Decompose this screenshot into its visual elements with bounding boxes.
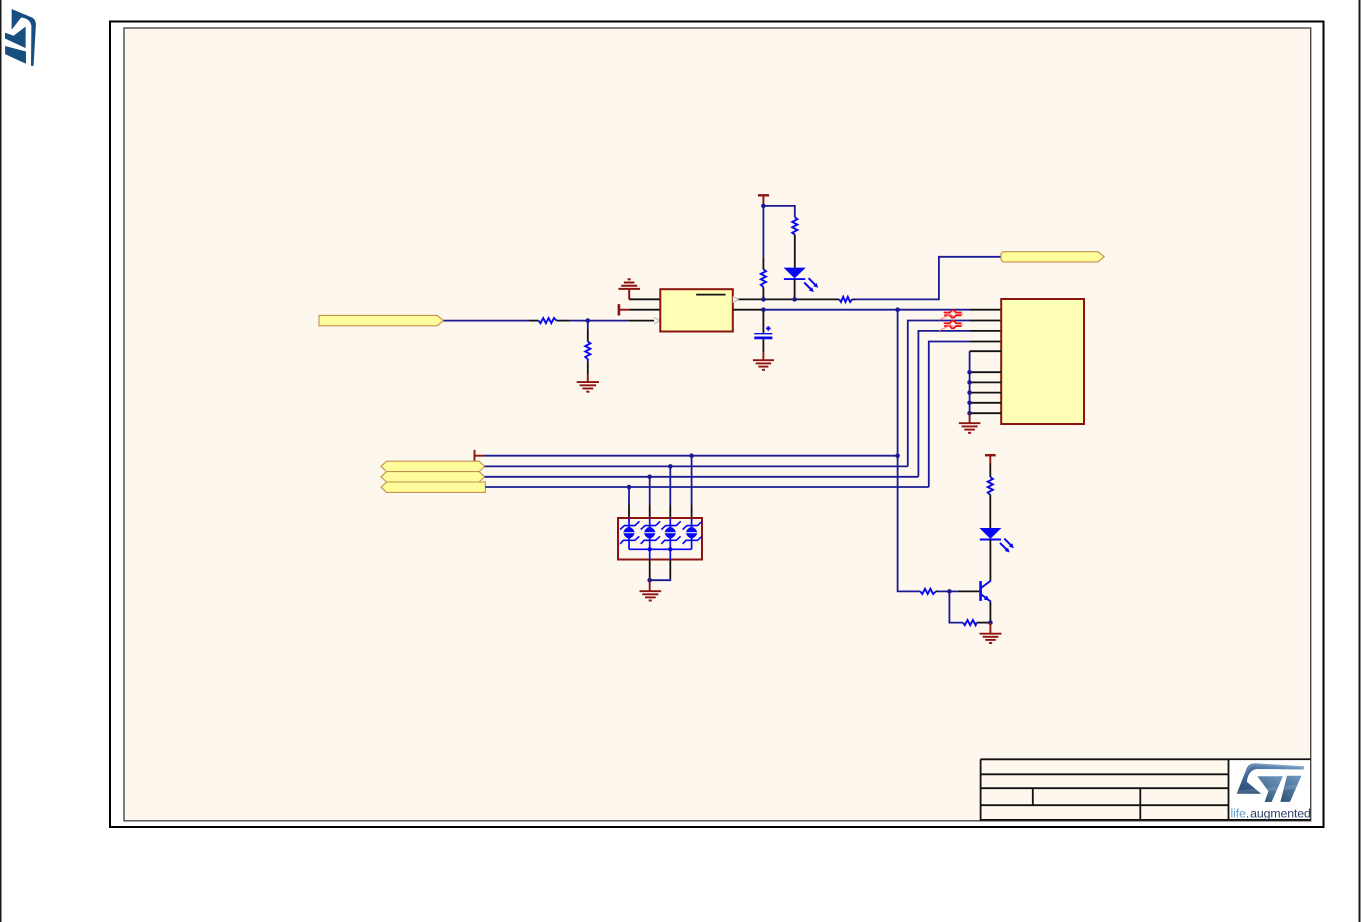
TVS array DZ1 box [618,518,702,560]
pin J1-10 [970,412,1002,414]
ST logo top-left (rotated 90) [5,9,36,66]
capacitor C1 lead top [762,312,764,334]
lead P3 to R6 [989,464,991,478]
wire vertical net1 [898,310,920,592]
wire w1 [485,455,898,457]
ground GND3 [959,413,981,433]
resistor R2 leads [587,329,589,375]
DZ1 bus drop 1 [649,549,651,559]
port A3 [381,482,485,492]
resistor R4 [792,217,797,234]
capacitor C1 lead bottom [762,339,764,352]
power flag P3 [985,455,996,463]
title block logo cell edge [1228,759,1230,820]
lead D2 to Q1 collector [989,540,991,581]
svg-text:life.augmented: life.augmented [1231,807,1312,821]
ST logo title block [1236,763,1304,802]
ground GND2 [753,352,774,370]
resistor R7 [920,589,936,594]
wire J1 ground bus vertical [969,351,971,413]
pin J1-7 [970,381,1002,383]
ground GND4 [980,623,1002,643]
title block outline [981,759,1311,821]
pin DZ1-3 [669,505,671,518]
wire R1 to U1 [569,320,628,322]
lead R6 to LED D2 [989,495,991,528]
ESD suppressor F1 [939,310,963,320]
resistor R3 [761,269,766,287]
wire w1 drop [691,456,693,505]
pin U1-out2 [733,309,764,311]
TVS diode D3 [620,518,640,549]
resistor R6 [988,477,993,495]
pin DZ1-1 [628,505,630,518]
wire out2 to connector [763,309,969,311]
resistor R8 [963,620,977,625]
TVS diode D4 [641,518,661,549]
wire VIN to R1 [444,320,530,322]
pin Q1 base [958,590,980,592]
U1 pin-name overbar [696,294,725,296]
pin DZ1-4 [691,505,693,518]
sheet outer border [110,22,1324,828]
pin arrow in [654,317,660,323]
lead D1 down [794,279,796,297]
wire w3 [485,476,919,478]
capacitor C1 [754,326,772,338]
junction gnd [647,578,652,583]
port A2 [381,472,485,482]
junction w1-d [689,453,694,458]
page edge line left [0,0,2,922]
power bar P1 at U1 pin2 [619,304,629,315]
pin Q1 emitter [989,602,991,621]
pin U1-1 [629,298,660,300]
junction J1-10 [967,411,972,416]
pin DZ1-2 [649,505,651,518]
ESD suppressor F2 [939,321,963,331]
ground GND5 [640,580,662,600]
pin DZ1-gnd1 [649,560,651,579]
lead R4 to LED D1 [794,235,796,268]
pin U1-out1 [739,298,764,300]
TVS diode D6 [683,518,703,549]
pin U1-2 [629,309,660,311]
resistor R5 leads [836,298,856,300]
ground GND0 inverted above U1 pin1 [618,279,640,299]
wire w2 [485,465,908,467]
DZ1 bus junction 1 [648,547,652,551]
wire base to R8 [949,591,962,622]
title block divider v1 [1032,788,1034,805]
no-ERC marker (red tick) [475,450,485,461]
resistor R3 leads [762,257,764,297]
resistor R1 [539,318,557,323]
pin arrow out [733,296,739,302]
junction J1-9 [967,401,972,406]
node A junction [586,318,591,323]
resistor R5 [839,297,852,302]
junction w3-d [647,475,652,480]
logo cell background [1230,760,1311,819]
port VOUT (yellow net arrow) [1001,252,1104,262]
wire R7 to base [938,590,958,592]
lead R8 to emitter node [977,622,989,624]
wire P2 node [762,203,764,257]
pin DZ1-gnd2 [669,560,671,579]
pin J1-6 [970,371,1002,373]
DZ1 internal bus [629,548,692,550]
title block row line 1 [981,773,1229,775]
wire net2 [908,321,970,467]
pin J1-2 [969,320,1001,322]
pin J1-8 [970,392,1002,394]
power flag P2 [758,195,769,203]
pin J1-1 [969,309,1001,311]
DZ1 bus drop 2 [669,549,671,559]
resistor R1 leads [529,320,539,322]
connector J1 [1001,299,1084,424]
resistor R7 leads [920,590,938,592]
wire w2 drop [669,466,671,505]
wire out1 segment [763,298,836,300]
junction J1-8 [967,390,972,395]
wire w3 drop [649,477,651,505]
wire P2 to LED branch [763,206,794,217]
transistor Q1 [981,581,991,602]
sheet inner border [124,28,1311,821]
node J1 pin1 junction [895,307,900,312]
junction J1-7 [967,380,972,385]
regulator U1 [660,289,733,331]
resistor R2 [585,341,590,361]
junction w4-d [627,485,632,490]
DZ1 bus junction 2 [668,547,672,551]
wire to port VOUT [856,257,1002,300]
junction emitter [988,620,993,625]
TVS diode D5 [661,518,681,549]
junction base [947,589,952,594]
node out1 junction 2 [792,297,797,302]
junction w2-d [668,464,673,469]
pin J1-4 [969,341,1001,343]
pin J1-9 [970,402,1002,404]
LED D1 [784,268,819,293]
pin J1-5 [970,350,1002,352]
node out1 junction 1 [761,297,766,302]
LED D2 [979,528,1014,553]
ground GND1 [577,375,599,392]
pin U1-3 input [628,320,654,322]
wire gnd jog [650,579,671,581]
wire w4 drop [628,487,630,505]
wire net3 [918,331,969,477]
title block divider v2 [1139,788,1141,820]
wire net4 [929,342,970,488]
wire w4 [485,486,928,488]
port VIN (yellow net arrow) [319,315,444,325]
port A1 [381,461,485,471]
junction w1-v [895,453,900,458]
title block row line 3 [981,804,1229,806]
junction J1-6 [967,370,972,375]
wire node A down [587,321,589,329]
title block row line 2 [981,787,1229,789]
pin J1-3 [969,330,1001,332]
node P2 junction [761,204,766,209]
page edge line right [1359,0,1361,922]
node out2 junction [761,307,766,312]
